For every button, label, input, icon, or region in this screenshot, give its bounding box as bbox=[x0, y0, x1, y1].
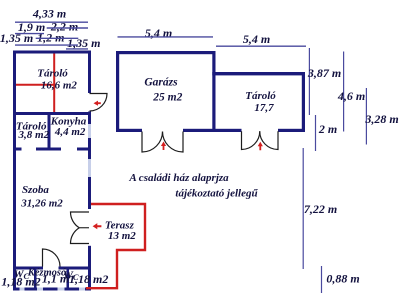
wc divider wall right bbox=[67, 270, 70, 288]
red measure horizontal line in storage 16,6 bbox=[16, 84, 55, 86]
dimension line under 4,33 m bbox=[15, 21, 88, 23]
svg-text:25 m2: 25 m2 bbox=[152, 92, 182, 104]
bottom wall garage left segment bbox=[116, 129, 142, 132]
svg-text:4,6 m: 4,6 m bbox=[337, 89, 365, 103]
bottom wall storage right segment bbox=[278, 129, 305, 132]
svg-text:31,26 m2: 31,26 m2 bbox=[20, 198, 63, 210]
inner wall below pantry mid segment bbox=[36, 148, 61, 151]
terrace double door upper leaf bbox=[71, 212, 90, 228]
bottom wall window dash 1 bbox=[20, 288, 25, 291]
red measure vertical line in storage 16,6 bbox=[53, 54, 55, 113]
terrace door red arrow bbox=[93, 223, 102, 229]
svg-text:3,28 m: 3,28 m bbox=[364, 112, 398, 126]
left building bottom wall bbox=[13, 288, 91, 291]
dimension line 0,88 m bbox=[321, 266, 323, 293]
dimension line 3,28 m bbox=[365, 88, 367, 145]
dimension line 2 m bbox=[315, 115, 317, 151]
right wall segment below terrace door bbox=[88, 246, 91, 291]
svg-text:3,87 m: 3,87 m bbox=[307, 66, 341, 80]
inner wall below storage 16,6 bbox=[13, 112, 91, 115]
svg-text:4,4 m2: 4,4 m2 bbox=[54, 126, 86, 138]
entry door leaf bbox=[90, 94, 108, 112]
right wall segment above entry door bbox=[88, 54, 91, 94]
garage double door left leaf bbox=[142, 132, 163, 153]
dimension line under right 1,35 bbox=[66, 48, 88, 50]
left building top wall bbox=[13, 51, 91, 54]
right wall segment between windows bbox=[88, 138, 91, 159]
inner wall between storage 3,8 and kitchen bbox=[48, 115, 51, 151]
svg-text:1,18 m2: 1,18 m2 bbox=[1, 275, 40, 289]
inner wall below pantry left stub bbox=[13, 148, 22, 151]
svg-text:3,8 m2: 3,8 m2 bbox=[18, 129, 50, 141]
garage left wall bbox=[116, 51, 119, 132]
svg-text:1,1 m: 1,1 m bbox=[42, 272, 69, 286]
wc divider wall left bbox=[34, 270, 37, 288]
dimension line 4,6 m bbox=[343, 52, 345, 132]
svg-text:Tároló: Tároló bbox=[37, 67, 68, 79]
garage top wall bbox=[116, 51, 216, 54]
terrace double door lower leaf bbox=[71, 228, 90, 244]
shared wall garage/storage bbox=[212, 51, 215, 132]
wc door leaf bbox=[43, 249, 61, 267]
right wall segment above terrace door bbox=[88, 177, 91, 209]
wall between room and wc row left segment bbox=[13, 267, 43, 270]
storage 17,7 double door right leaf bbox=[260, 131, 278, 149]
bottom wall window dash 2 bbox=[37, 288, 43, 291]
storage 17,7 double door left leaf bbox=[242, 131, 260, 149]
svg-text:0,88 m: 0,88 m bbox=[326, 272, 359, 286]
svg-text:1,35 m: 1,35 m bbox=[67, 36, 100, 50]
bottom wall window dash 4 bbox=[79, 288, 85, 291]
svg-text:tájékoztató jellegű: tájékoztató jellegű bbox=[175, 187, 258, 199]
bottom wall window dash 3 bbox=[58, 288, 65, 291]
garage double door right leaf bbox=[163, 132, 184, 153]
svg-text:2 m: 2 m bbox=[318, 122, 337, 136]
svg-text:5,4 m: 5,4 m bbox=[145, 26, 172, 40]
svg-text:7,22 m: 7,22 m bbox=[304, 202, 337, 216]
entry door red arrow bbox=[94, 101, 101, 106]
dimension line 3,87 m bbox=[308, 48, 310, 115]
right wall segment below entry door bbox=[88, 112, 91, 125]
terrace door meeting tick bbox=[79, 227, 89, 229]
svg-text:17,7: 17,7 bbox=[254, 102, 274, 114]
strike line through 1,2 m bbox=[36, 37, 79, 39]
dimension line 5,4 garage bbox=[118, 36, 214, 38]
svg-text:Tároló: Tároló bbox=[245, 90, 276, 102]
dimension line under 1,35 / 1,2 bbox=[15, 44, 78, 46]
svg-text:1,18 m2: 1,18 m2 bbox=[69, 272, 108, 286]
svg-text:Garázs: Garázs bbox=[144, 76, 178, 88]
svg-text:4,33 m: 4,33 m bbox=[32, 7, 66, 21]
svg-text:13 m2: 13 m2 bbox=[108, 230, 136, 242]
svg-text:Szoba: Szoba bbox=[22, 184, 49, 196]
svg-text:1,35 m: 1,35 m bbox=[0, 31, 33, 45]
storage 17,7 top wall bbox=[212, 72, 305, 75]
wall between room and wc row right segment bbox=[59, 267, 92, 270]
svg-text:5,4 m: 5,4 m bbox=[243, 32, 270, 46]
storage door red arrow bbox=[258, 142, 263, 151]
garage door red arrow bbox=[161, 142, 166, 151]
svg-text:16,6 m2: 16,6 m2 bbox=[41, 79, 78, 91]
left building left wall bbox=[13, 51, 16, 291]
svg-text:A családi ház alaprjza: A családi ház alaprjza bbox=[128, 172, 229, 184]
right wall window (kitchen) bbox=[88, 124, 91, 138]
svg-text:1,2 m: 1,2 m bbox=[37, 31, 64, 45]
terrace red outline bbox=[86, 204, 145, 288]
storage 17,7 right wall bbox=[302, 72, 305, 132]
inner wall below kitchen right segment bbox=[77, 148, 91, 151]
dimension line 7,22 m bbox=[302, 148, 304, 269]
bottom wall between doors segment bbox=[183, 129, 242, 132]
strike line through 2,2 m bbox=[47, 27, 88, 29]
right wall window (room) bbox=[88, 159, 91, 177]
dimension line under 1,9 m bbox=[15, 33, 44, 35]
dimension line 5,4 storage bbox=[216, 45, 306, 47]
